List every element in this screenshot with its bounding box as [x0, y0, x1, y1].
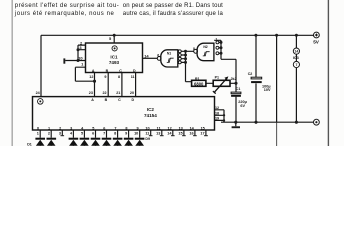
svg-text:A: A	[91, 98, 94, 102]
svg-text:17: 17	[200, 132, 204, 136]
svg-text:9: 9	[136, 126, 138, 130]
svg-text:10: 10	[78, 56, 83, 61]
svg-text:11: 11	[157, 126, 161, 130]
svg-text:6V: 6V	[240, 104, 245, 108]
svg-text:7493: 7493	[109, 60, 120, 65]
svg-text:13: 13	[156, 132, 160, 136]
svg-text:3: 3	[59, 132, 61, 136]
svg-text:IC3: IC3	[293, 56, 299, 60]
svg-text:15: 15	[178, 132, 182, 136]
svg-text:2: 2	[48, 132, 50, 136]
svg-text:13: 13	[179, 126, 183, 130]
svg-text:R1: R1	[195, 77, 200, 81]
svg-text:2: 2	[59, 126, 61, 130]
svg-text:10: 10	[145, 126, 149, 130]
svg-text:11: 11	[131, 75, 135, 79]
svg-text:20: 20	[130, 91, 134, 95]
svg-text:B: B	[105, 98, 108, 102]
svg-text:D: D	[131, 98, 134, 102]
svg-text:9: 9	[125, 132, 127, 136]
svg-text:14: 14	[295, 49, 299, 53]
svg-text:74154: 74154	[144, 113, 157, 118]
svg-text:6: 6	[92, 132, 94, 136]
svg-text:8: 8	[125, 126, 127, 130]
svg-text:6800: 6800	[194, 81, 204, 86]
svg-text:C2: C2	[248, 72, 253, 76]
svg-text:5V: 5V	[313, 40, 320, 45]
svg-text:5: 5	[92, 126, 94, 130]
svg-text:16: 16	[189, 132, 193, 136]
svg-text:10: 10	[134, 132, 138, 136]
svg-text:N1: N1	[167, 52, 171, 56]
svg-text:2k2: 2k2	[231, 77, 237, 81]
svg-text:15: 15	[201, 126, 205, 130]
svg-text:A: A	[92, 69, 95, 73]
svg-text:8: 8	[114, 132, 116, 136]
svg-text:D1: D1	[27, 143, 32, 146]
svg-text:C: C	[119, 69, 122, 73]
svg-text:12: 12	[167, 126, 171, 130]
svg-text:0: 0	[37, 126, 39, 130]
svg-text:22: 22	[102, 91, 106, 95]
svg-text:14: 14	[144, 53, 149, 58]
svg-text:D9: D9	[145, 137, 150, 141]
svg-text:on peut se passer de R1. Dans: on peut se passer de R1. Dans tout	[123, 3, 223, 9]
svg-text:1: 1	[48, 126, 50, 130]
svg-text:jours été remarquable, nous ne: jours été remarquable, nous ne	[14, 11, 115, 17]
svg-text:1: 1	[37, 132, 39, 136]
svg-text:9: 9	[104, 75, 106, 79]
svg-text:7: 7	[103, 132, 105, 136]
svg-text:IC2: IC2	[147, 107, 155, 112]
svg-text:8: 8	[193, 47, 195, 51]
svg-text:12: 12	[215, 106, 219, 110]
svg-text:6: 6	[103, 126, 105, 130]
svg-text:C: C	[118, 98, 121, 102]
svg-text:10V: 10V	[264, 88, 271, 92]
svg-text:7: 7	[295, 63, 297, 67]
svg-text:6: 6	[157, 53, 159, 57]
svg-text:N2: N2	[203, 45, 207, 49]
svg-text:18: 18	[215, 111, 219, 115]
svg-text:IC1: IC1	[110, 55, 118, 60]
svg-text:8: 8	[118, 75, 120, 79]
svg-text:présent l'effet de surprise ai: présent l'effet de surprise ait tou-	[15, 3, 119, 9]
svg-text:23: 23	[89, 91, 93, 95]
svg-text:3: 3	[70, 126, 72, 130]
svg-text:7: 7	[114, 126, 116, 130]
svg-text:5: 5	[81, 132, 83, 136]
svg-text:19: 19	[215, 117, 219, 121]
svg-text:C1: C1	[236, 87, 241, 91]
svg-text:D: D	[133, 69, 136, 73]
svg-text:B: B	[106, 69, 109, 73]
svg-text:autre cas, il faudra s'assurer: autre cas, il faudra s'assurer que la	[123, 11, 224, 17]
svg-text:11: 11	[145, 132, 149, 136]
svg-text:P1: P1	[215, 75, 219, 79]
svg-text:21: 21	[116, 91, 120, 95]
svg-text:12: 12	[89, 75, 93, 79]
